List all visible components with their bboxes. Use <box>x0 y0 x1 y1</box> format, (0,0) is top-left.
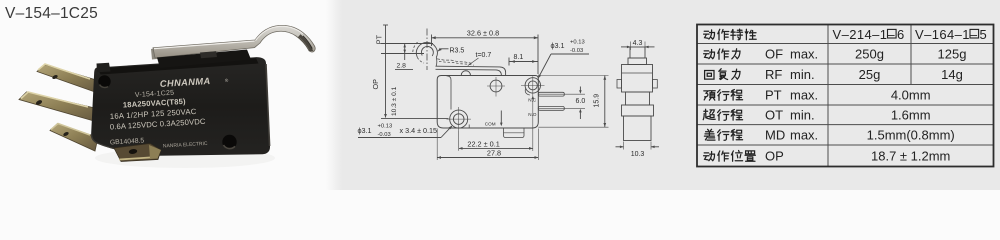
svg-text:OP: OP <box>371 79 380 90</box>
svg-text:15.9: 15.9 <box>594 94 601 108</box>
svg-text:2.8: 2.8 <box>397 63 407 70</box>
svg-text:V–154–1C25: V–154–1C25 <box>5 5 98 22</box>
svg-text:min.: min. <box>790 107 815 122</box>
svg-text:OF: OF <box>765 46 783 61</box>
svg-text:22.2 ± 0.1: 22.2 ± 0.1 <box>467 139 499 148</box>
svg-text:R3.5: R3.5 <box>450 48 465 55</box>
svg-text:t=0.7: t=0.7 <box>476 52 492 59</box>
svg-text:N.C: N.C <box>528 97 537 102</box>
svg-text:max.: max. <box>790 46 818 61</box>
svg-text:-0.03: -0.03 <box>570 48 583 54</box>
svg-text:10.3 ± 0.1: 10.3 ± 0.1 <box>391 86 398 116</box>
svg-text:1.6mm: 1.6mm <box>891 107 931 122</box>
svg-text:x 3.4 ± 0.15: x 3.4 ± 0.15 <box>400 126 438 135</box>
svg-text:5: 5 <box>980 27 987 42</box>
svg-text:PT: PT <box>375 34 384 44</box>
svg-text:max.: max. <box>790 127 818 142</box>
svg-text:PT: PT <box>765 87 782 102</box>
svg-text:250g: 250g <box>855 46 884 61</box>
svg-text:+0.13: +0.13 <box>570 40 585 46</box>
svg-text:OT: OT <box>765 107 783 122</box>
svg-text:6: 6 <box>897 27 904 42</box>
svg-text:max.: max. <box>790 87 818 102</box>
svg-text:V–214–1–: V–214–1– <box>833 27 896 42</box>
svg-text:1.5mm(0.8mm): 1.5mm(0.8mm) <box>867 127 955 142</box>
svg-text:18.7 ± 1.2mm: 18.7 ± 1.2mm <box>871 148 950 163</box>
svg-text:10.3: 10.3 <box>631 151 645 158</box>
svg-text:ϕ3.1: ϕ3.1 <box>551 41 565 50</box>
svg-text:27.8: 27.8 <box>487 148 501 157</box>
svg-text:4.0mm: 4.0mm <box>891 87 931 102</box>
svg-text:min.: min. <box>790 67 815 82</box>
svg-text:+0.13: +0.13 <box>378 124 393 130</box>
svg-text:COM: COM <box>485 121 496 126</box>
svg-text:6.0: 6.0 <box>576 98 586 105</box>
svg-text:4.3: 4.3 <box>633 40 643 47</box>
svg-text:125g: 125g <box>938 46 967 61</box>
svg-text:RF: RF <box>765 67 782 82</box>
svg-text:V–164–1–: V–164–1– <box>915 27 978 42</box>
svg-text:MD: MD <box>765 127 785 142</box>
svg-text:ϕ3.1: ϕ3.1 <box>358 126 372 135</box>
svg-text:8.1: 8.1 <box>514 54 524 61</box>
svg-text:OP: OP <box>765 148 784 163</box>
svg-text:25g: 25g <box>859 67 881 82</box>
svg-text:14g: 14g <box>941 67 963 82</box>
svg-text:N.O: N.O <box>528 112 537 117</box>
svg-text:32.6 ± 0.8: 32.6 ± 0.8 <box>467 28 499 37</box>
